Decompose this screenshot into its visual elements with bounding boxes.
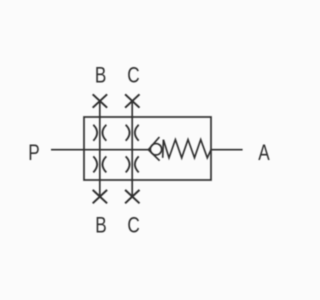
- wire B vertical: [99, 101, 101, 196]
- plug X bottom of B line: [93, 190, 107, 203]
- svg-text:A: A: [258, 141, 270, 166]
- svg-text:B: B: [95, 63, 106, 88]
- wire C vertical: [131, 101, 133, 196]
- check valve ball: [150, 144, 161, 155]
- svg-text:C: C: [127, 63, 139, 88]
- svg-text:P: P: [28, 141, 39, 166]
- plug X bottom of C line: [125, 190, 139, 203]
- orifice C upper: [126, 125, 139, 141]
- orifice B lower: [93, 156, 106, 172]
- valve body: [84, 117, 211, 180]
- orifice C lower: [126, 156, 139, 172]
- spring: [163, 140, 211, 158]
- wire P inlet: [51, 149, 148, 151]
- svg-text:C: C: [127, 213, 139, 238]
- check valve seat V: [148, 137, 159, 161]
- wire A outlet: [211, 149, 243, 151]
- orifice B upper: [93, 125, 106, 141]
- plug X top of B line: [93, 94, 107, 107]
- plug X top of C line: [125, 94, 139, 107]
- svg-text:B: B: [95, 213, 106, 238]
